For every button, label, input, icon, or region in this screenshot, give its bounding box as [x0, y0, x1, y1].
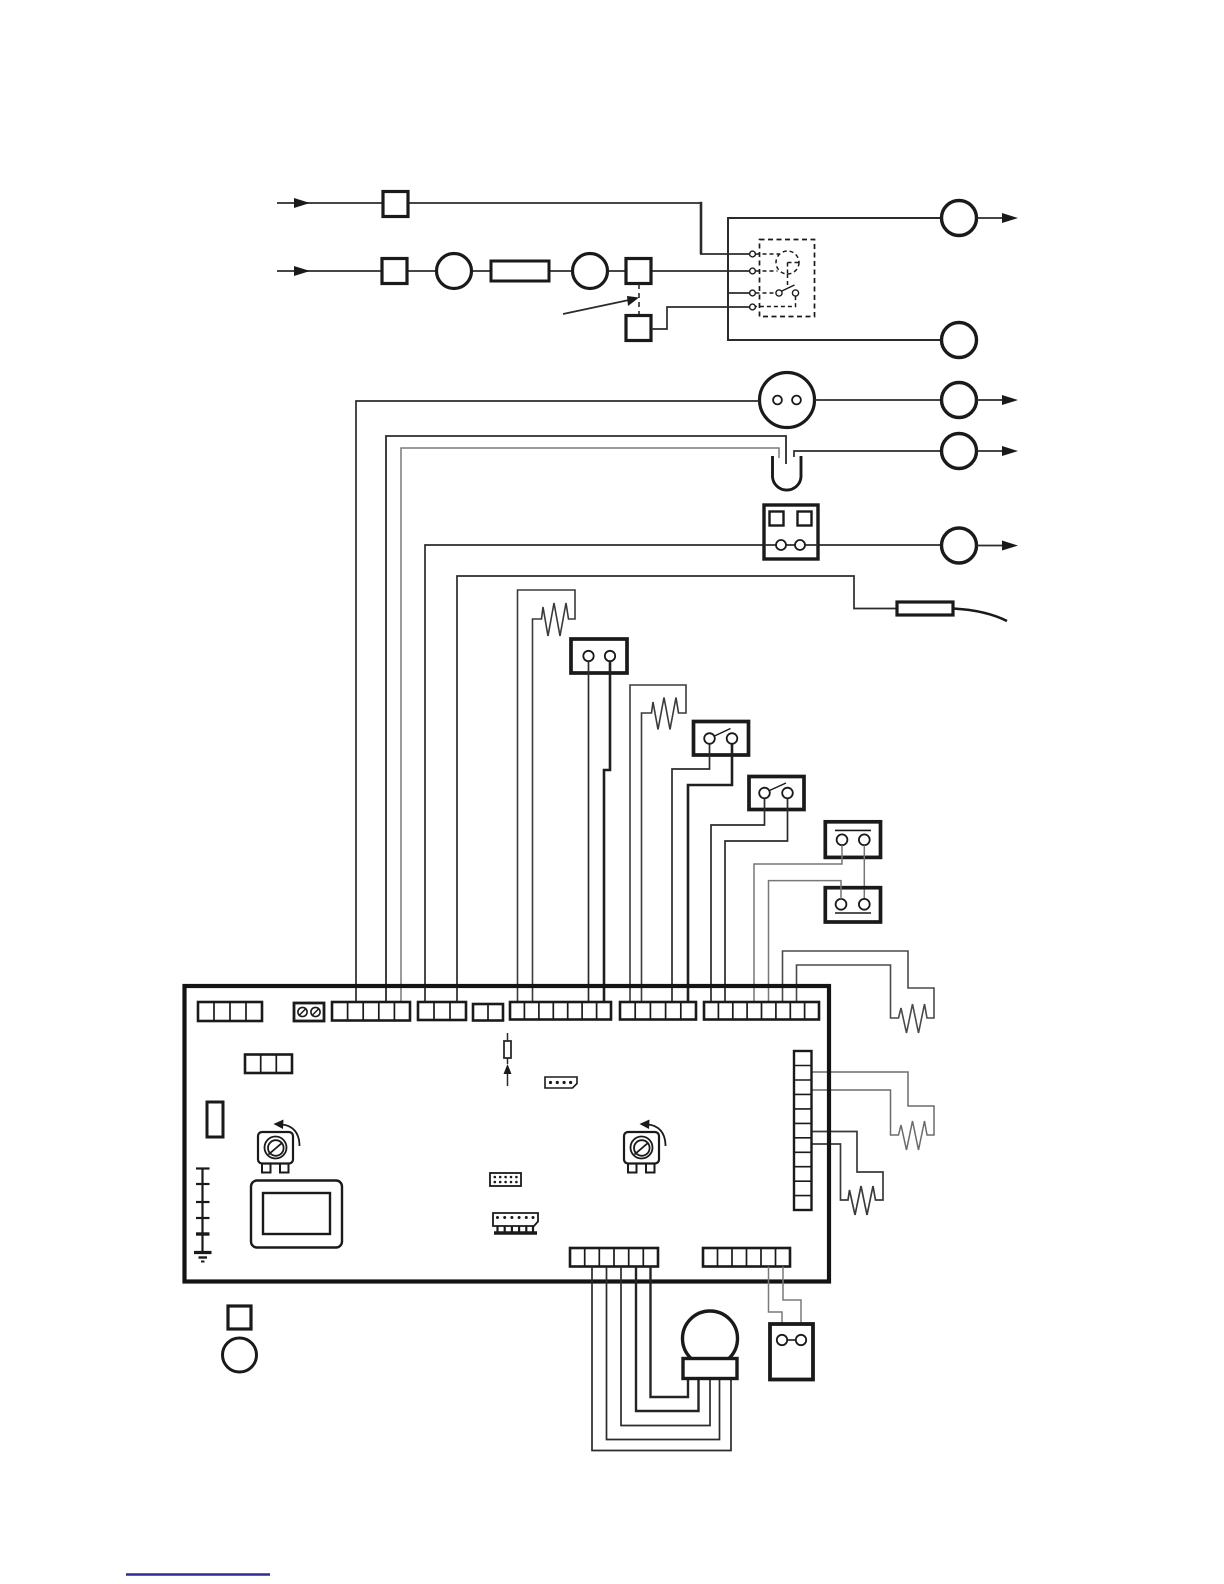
wire to dashed box T1 — [700, 202, 750, 254]
wire input line 1 — [277, 202, 701, 204]
output arrow O4 — [977, 450, 1005, 452]
output circle O4 — [942, 434, 977, 469]
connector P10 — [490, 1173, 521, 1186]
wire J4 to T4 — [651, 307, 750, 329]
arrowhead input 1 — [294, 198, 310, 208]
wire board to sensor fuse — [457, 576, 897, 1002]
output circle O5 — [942, 528, 977, 563]
terminal strip B — [332, 1002, 410, 1021]
arrowhead input 2 — [294, 266, 310, 276]
vertical terminal ladder — [794, 1051, 812, 1210]
sensor box B4 — [825, 888, 880, 922]
terminal strip A — [198, 1002, 262, 1021]
relay switch dashed links — [756, 293, 796, 307]
SW1 right lead (thick) — [688, 744, 732, 1002]
relay dashed box — [760, 240, 815, 317]
resistor loop M1 — [518, 590, 576, 1002]
resistor loop R2 (grey) — [812, 1072, 935, 1150]
pin header connector — [493, 1213, 538, 1226]
TB1 right lead (thick) — [604, 661, 610, 1002]
resistor loop R3 — [812, 1132, 884, 1216]
tap ladder — [196, 1168, 210, 1253]
relay switch contacts — [776, 290, 782, 296]
resistor loop M2 — [630, 685, 686, 1002]
terminal block TBm — [764, 505, 818, 559]
test point arrow — [507, 1072, 509, 1086]
annotation arrow — [563, 300, 629, 314]
sensor fuse body — [897, 602, 953, 615]
dashed link J3-J4 — [638, 284, 640, 315]
sensor box B3 — [825, 822, 880, 858]
junction box J3 — [626, 259, 651, 284]
screw terminal box — [294, 1003, 324, 1021]
display module — [251, 1181, 342, 1248]
interlock circle C1 — [437, 254, 472, 289]
relay coil dashed circle — [756, 251, 800, 286]
blower motor wires — [592, 1267, 731, 1451]
bottom strip H — [570, 1248, 658, 1267]
potentiometer P1 — [258, 1120, 300, 1173]
output circle O1 — [942, 201, 977, 236]
output circle O3 — [942, 383, 977, 418]
fuse F1 — [504, 1033, 511, 1064]
component K1 — [207, 1102, 223, 1137]
terminal strip F — [620, 1002, 696, 1020]
relay switch lever — [782, 285, 795, 291]
potentiometer P2 — [624, 1120, 666, 1173]
SW1 left lead — [672, 744, 710, 1002]
relay terminal T1 — [750, 251, 756, 257]
sensor probe lead — [953, 609, 1007, 622]
terminal strip D — [473, 1004, 503, 1021]
footer line — [126, 1573, 270, 1576]
wire board to igniter center — [386, 436, 786, 1002]
spare square — [228, 1306, 251, 1329]
wire board through terminal block to O5 — [425, 545, 942, 1002]
small strip 3-cell — [245, 1055, 292, 1074]
SW2 right lead — [725, 798, 788, 1002]
ground symbol — [194, 1253, 212, 1262]
junction box J4 — [626, 316, 651, 341]
output arrow O3 — [977, 399, 1005, 401]
B4 left lead (grey) — [769, 881, 842, 1002]
bottom strip I — [703, 1248, 790, 1267]
relay terminal T2 — [750, 268, 756, 274]
resistor loop R1 — [783, 951, 935, 1033]
TB1 left lead — [588, 661, 590, 1002]
blower motor — [683, 1311, 738, 1366]
control board outline — [185, 986, 830, 1282]
limit switch SW1 — [694, 722, 749, 756]
relay terminal T4 — [750, 304, 756, 310]
output arrow O1 — [977, 217, 1005, 219]
terminal strip C — [418, 1002, 466, 1020]
wire pump to O3 — [815, 399, 942, 401]
junction box J2 — [382, 259, 407, 284]
SW2 left lead — [711, 798, 765, 1002]
connector P4 — [545, 1077, 577, 1088]
interlock circle C2 — [573, 254, 608, 289]
wire board to pump — [356, 401, 760, 1002]
junction box J1 — [383, 192, 408, 217]
vertical bus to output circles — [728, 217, 942, 341]
igniter dome — [773, 456, 802, 490]
wire board to igniter left (grey) — [401, 448, 779, 1002]
B3 left lead (grey) — [754, 845, 842, 1002]
capacitor block — [491, 261, 549, 281]
wire input line 2 — [277, 270, 750, 272]
relay terminal T3 — [750, 290, 756, 296]
output circle O2 — [942, 323, 977, 358]
output arrow O5 — [977, 545, 1005, 547]
limit switch SW2 — [749, 777, 804, 810]
limit terminal box TB1 — [571, 639, 627, 673]
aux terminal box — [770, 1324, 813, 1380]
terminal strip E — [510, 1002, 611, 1020]
pump motor circle — [760, 373, 815, 428]
terminal strip G — [704, 1002, 819, 1020]
wire igniter to O4 — [794, 451, 942, 457]
aux box wires (grey) — [769, 1267, 783, 1336]
spare circle — [223, 1338, 257, 1372]
B3-B4 link — [863, 845, 865, 899]
